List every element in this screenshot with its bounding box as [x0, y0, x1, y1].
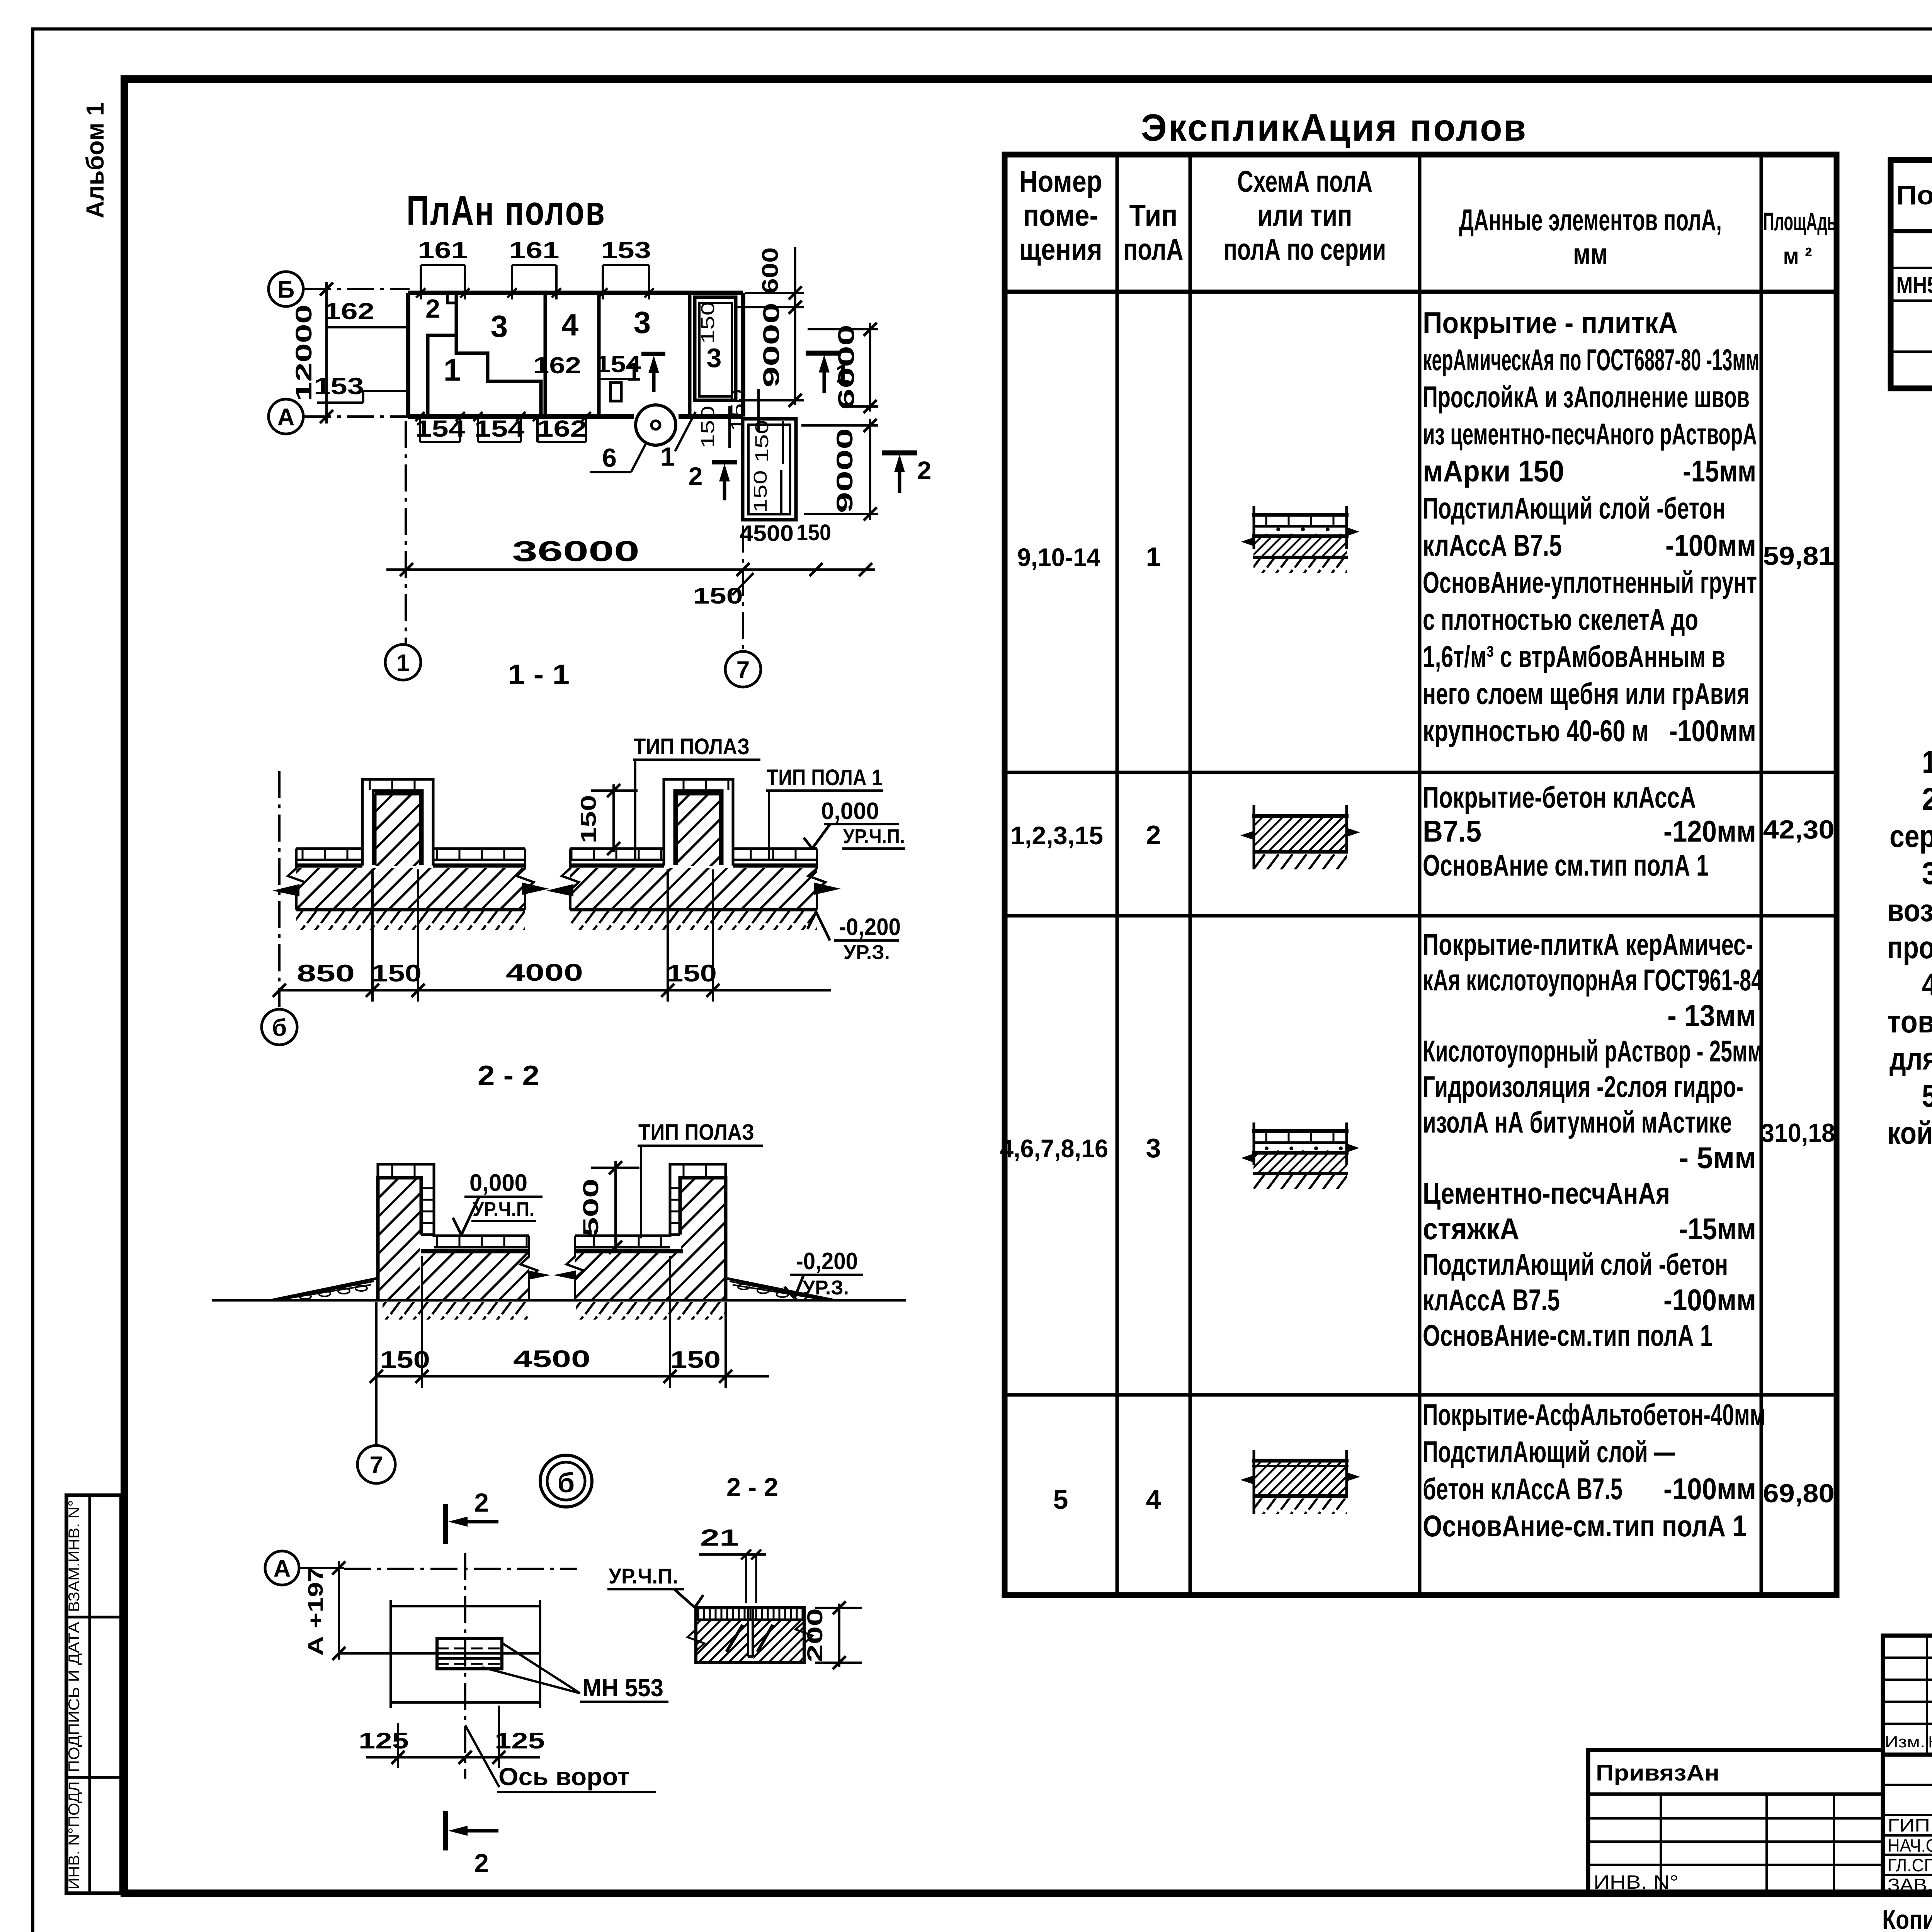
section mark 1 right [806, 353, 849, 393]
svg-text:12000: 12000 [291, 304, 316, 401]
svg-text:59,81: 59,81 [1763, 541, 1835, 571]
leader ТИП ПОЛА3 [633, 734, 760, 861]
svg-text:ПодстилАющий слой -бетон: ПодстилАющий слой -бетон [1423, 1247, 1728, 1281]
svg-text:-120мм: -120мм [1663, 814, 1756, 848]
title block left box Привязан [1588, 1750, 1883, 1893]
opening dimension 161 [416, 237, 469, 299]
explication schema type 2 [1240, 805, 1360, 869]
leader ТИП ПОЛА3 section 2-2 [638, 1120, 763, 1238]
svg-text:ИНВ. N°ПОДЛ: ИНВ. N°ПОДЛ [66, 1781, 83, 1889]
svg-text:ДАнные элементов полА,: ДАнные элементов полА, [1459, 203, 1722, 237]
section 1-1 axis line [278, 771, 281, 1007]
svg-text:4.По периметру нАружных стен у: 4.По периметру нАружных стен уложить сло… [1922, 967, 1932, 1002]
svg-text:А +197: А +197 [304, 1567, 327, 1656]
svg-text:150: 150 [750, 470, 771, 513]
svg-text:поме-: поме- [1023, 198, 1099, 232]
svg-text:-0,200: -0,200 [796, 1248, 858, 1275]
label 162 middle [533, 352, 581, 378]
level mark 0.000 section 2-2 [453, 1170, 543, 1235]
svg-text:-100мм: -100мм [1665, 528, 1756, 562]
svg-text:Цементно-песчАнАя: Цементно-песчАнАя [1423, 1176, 1670, 1210]
svg-text:б: б [558, 1468, 575, 1498]
svg-text:1: 1 [444, 353, 461, 387]
svg-text:Номер: Номер [1019, 164, 1102, 198]
axis line column 7 [742, 526, 744, 651]
axis circle Б [269, 272, 303, 306]
label 162 left [324, 298, 408, 327]
svg-text:Покрытие-АсфАльтобетон-40мм: Покрытие-АсфАльтобетон-40мм [1423, 1398, 1765, 1432]
svg-text:-15мм: -15мм [1683, 454, 1756, 488]
svg-text:2: 2 [474, 1488, 489, 1517]
level mark -0.200 section 1-1 [808, 912, 901, 964]
section 2-2 title [478, 1060, 539, 1091]
specification row texts [1896, 235, 1932, 301]
svg-text:150: 150 [670, 1347, 721, 1373]
label 150 with leader [693, 573, 753, 609]
svg-text:3: 3 [634, 305, 651, 340]
svg-text:4500: 4500 [740, 521, 794, 546]
svg-text:ПрослойкА и зАполнение швов: ПрослойкА и зАполнение швов [1423, 380, 1750, 414]
specification header texts [1896, 165, 1932, 215]
room label 3 right [634, 305, 651, 340]
svg-text:2 - 2: 2 - 2 [478, 1060, 539, 1091]
axis circle 1 [385, 645, 421, 680]
svg-text:ОсновАние-см.тип полА 1: ОсновАние-см.тип полА 1 [1423, 1509, 1747, 1543]
opening dimension 162 bottom [533, 412, 591, 442]
svg-text:200: 200 [803, 1608, 827, 1662]
section mark 2 in plan [689, 462, 737, 500]
svg-text:2: 2 [917, 456, 932, 485]
detail construction grid [339, 1553, 540, 1779]
svg-text:крупностью 40-60 м: крупностью 40-60 м [1423, 714, 1649, 748]
dimension 500 curb height [578, 1161, 639, 1254]
axis circle 7 section 2-2 [357, 1446, 395, 1483]
svg-text:УР.З.: УР.З. [844, 941, 890, 964]
opening dimension 161 [507, 237, 561, 299]
svg-text:ТИП ПОЛАЗ: ТИП ПОЛАЗ [638, 1120, 754, 1145]
dimension 12000 left [291, 282, 333, 423]
level mark 0.000 section 1-1 [804, 798, 905, 849]
svg-text:мАрки 150: мАрки 150 [1423, 454, 1564, 488]
section 2-2 ground line [212, 1300, 906, 1320]
svg-text:Изм.: Изм. [1885, 1733, 1925, 1751]
svg-text:ГЛ.СПЕЦ.: ГЛ.СПЕЦ. [1888, 1855, 1932, 1875]
svg-text:возведения перегородок,уклАдки: возведения перегородок,уклАдки труб элек… [1887, 893, 1932, 928]
detail section 2-2 small title [726, 1473, 778, 1502]
svg-text:клАссА В7.5: клАссА В7.5 [1423, 1283, 1560, 1317]
svg-text:ТИП ПОЛА 1: ТИП ПОЛА 1 [767, 765, 883, 790]
svg-text:2: 2 [425, 294, 440, 323]
svg-text:7: 7 [736, 656, 750, 683]
svg-text:150: 150 [752, 420, 772, 463]
svg-text:Кол.уч: Кол.уч [1929, 1733, 1932, 1751]
small section level УР.Ч.П. [607, 1564, 703, 1607]
svg-text:150: 150 [698, 406, 718, 448]
svg-text:МН 553: МН 553 [582, 1674, 663, 1702]
level mark -0.200 section 2-2 [784, 1248, 863, 1299]
opening dimension 153 [598, 237, 654, 299]
label Ось ворот [465, 1725, 656, 1792]
section 2-2 right curb unit [553, 1164, 834, 1300]
dimension 150 curb height [576, 784, 638, 855]
svg-text:42,30: 42,30 [1763, 815, 1835, 844]
svg-text:2: 2 [474, 1849, 489, 1878]
section 2-2 dimension line [370, 1256, 769, 1388]
trench label 150 top [698, 301, 718, 344]
svg-text:4: 4 [1146, 1485, 1161, 1515]
svg-text:2: 2 [689, 462, 703, 490]
svg-text:9000: 9000 [832, 428, 857, 513]
svg-text:стяжкА: стяжкА [1423, 1212, 1519, 1246]
svg-text:УР.Ч.П.: УР.Ч.П. [843, 825, 905, 848]
svg-text:153: 153 [314, 373, 364, 399]
dimension 125 125 [359, 1706, 545, 1768]
section 1-1 right slab with curb [546, 779, 841, 930]
svg-text:ГИП: ГИП [1888, 1815, 1930, 1835]
svg-text:Поз.: Поз. [1896, 180, 1932, 210]
svg-text:ОсновАние-уплотненный грунт: ОсновАние-уплотненный грунт [1423, 565, 1757, 599]
svg-text:150: 150 [371, 960, 422, 987]
svg-text:- 13мм: - 13мм [1667, 998, 1756, 1032]
svg-text:150: 150 [576, 795, 600, 844]
explication schema type 4 [1240, 1450, 1360, 1514]
opening dimension 154 bottom [473, 412, 526, 442]
section 1-1 title [508, 659, 570, 690]
title План полов [406, 187, 606, 234]
svg-text:153: 153 [601, 237, 651, 263]
svg-text:4,6,7,8,16: 4,6,7,8,16 [1000, 1134, 1108, 1163]
section 2-2 left curb unit [271, 1164, 551, 1300]
explication row 2 texts [1010, 780, 1835, 882]
specification table grid [1891, 160, 1932, 388]
opening dimension 154 bottom [415, 412, 466, 442]
partition wall rooms 3-4 [544, 293, 547, 417]
svg-text:СхемА полА: СхемА полА [1237, 164, 1372, 198]
svg-text:125: 125 [359, 1728, 409, 1753]
svg-text:из цементно-песчАного рАстворА: из цементно-песчАного рАстворА [1423, 417, 1757, 451]
stamp label ПОДПИСЬ И ДАТА [66, 1622, 83, 1772]
second trench label 150 top [752, 420, 783, 464]
svg-text:ЭкспликАция полов: ЭкспликАция полов [1141, 106, 1527, 149]
svg-text:69,80: 69,80 [1763, 1479, 1835, 1508]
detail section mark 2 bottom [446, 1811, 498, 1878]
svg-text:полА: полА [1124, 232, 1184, 266]
axis line А detail [299, 1568, 577, 1569]
svg-text:162: 162 [324, 298, 374, 324]
axis line column 1 [405, 421, 407, 645]
svg-text:Б: Б [277, 276, 295, 303]
svg-text:5.Уклон полов к трАпАм принят: 5.Уклон полов к трАпАм принят 0,010: вып… [1922, 1078, 1932, 1114]
room label 3 [491, 309, 508, 344]
svg-text:3: 3 [707, 343, 722, 373]
svg-text:серии 2.244-1 , вып. 3.: серии 2.244-1 , вып. 3. [1889, 819, 1932, 854]
right dimension 6000 [808, 323, 878, 413]
svg-text:-100мм: -100мм [1663, 1283, 1756, 1317]
dimension line 36000 [386, 520, 875, 576]
label 154 middle [595, 351, 641, 379]
svg-text:500: 500 [578, 1179, 603, 1236]
svg-text:-0,200: -0,200 [839, 914, 901, 940]
leader label 1 [660, 412, 696, 471]
svg-text:изолА нА битумной мАстике: изолА нА битумной мАстике [1423, 1105, 1732, 1139]
dimension А+197 [304, 1561, 345, 1660]
node 6 circle marker [636, 405, 676, 445]
svg-text:Гидроизоляция -2слоя гидро-: Гидроизоляция -2слоя гидро- [1423, 1070, 1743, 1104]
svg-text:б: б [272, 1014, 287, 1041]
axis line 7 section 2-2 [375, 1388, 378, 1444]
explication row 1 texts [1017, 306, 1835, 748]
svg-text:1.Типы полов приняты по СНиП 2: 1.Типы полов приняты по СНиП 2.03.13 -88… [1922, 745, 1932, 780]
axis line А [304, 415, 421, 418]
detail section mark 2 top [446, 1488, 498, 1544]
partition wall room2 [447, 293, 456, 335]
small section slab [687, 1608, 813, 1663]
axis circle А [269, 399, 303, 434]
right dimension 9000 lower [801, 419, 878, 520]
axis circle б section 1-1 [262, 1009, 297, 1045]
door opening [611, 383, 621, 401]
svg-text:ОсновАние см.тип полА 1: ОсновАние см.тип полА 1 [1423, 848, 1709, 882]
explication schema type 3 [1241, 1122, 1359, 1189]
svg-text:36000: 36000 [512, 535, 639, 567]
svg-text:162: 162 [537, 416, 587, 442]
svg-text:21: 21 [700, 1525, 739, 1551]
notes text block [1887, 745, 1932, 1151]
svg-text:УР.Ч.П.: УР.Ч.П. [609, 1564, 678, 1588]
svg-text:ПодстилАющий слой —: ПодстилАющий слой — [1423, 1435, 1675, 1469]
svg-text:НАЧ.ОТД.: НАЧ.ОТД. [1888, 1835, 1932, 1855]
svg-text:1: 1 [627, 357, 641, 386]
svg-text:Покрытие-бетон клАссА: Покрытие-бетон клАссА [1423, 780, 1696, 814]
svg-text:м ²: м ² [1783, 243, 1812, 270]
explication table title [1141, 106, 1527, 149]
right dimension 600 9000 [736, 247, 804, 407]
svg-text:керАмическАя по ГОСТ6887-80 -1: керАмическАя по ГОСТ6887-80 -13мм [1423, 343, 1759, 377]
svg-text:2 - 2: 2 - 2 [726, 1473, 778, 1502]
title block main outline [1883, 1636, 1932, 1893]
svg-text:клАссА В7.5: клАссА В7.5 [1423, 528, 1562, 562]
svg-text:ВЗАМ.ИНВ. N°: ВЗАМ.ИНВ. N° [66, 1500, 83, 1612]
svg-text:2: 2 [1146, 820, 1161, 850]
svg-text:1: 1 [660, 442, 675, 471]
svg-text:с плотностью скелетА до: с плотностью скелетА до [1423, 602, 1698, 636]
building outline wall [408, 293, 743, 417]
svg-text:162: 162 [533, 352, 581, 378]
partition wall rooms 4-3 [597, 293, 601, 417]
room label 2 [425, 294, 440, 323]
svg-text:125: 125 [495, 1728, 545, 1753]
embedded plate МН553 [437, 1638, 502, 1669]
svg-text:6: 6 [602, 443, 617, 473]
svg-text:150: 150 [693, 583, 743, 609]
svg-text:310,18: 310,18 [1761, 1118, 1835, 1148]
room 1 stepped partition [428, 335, 541, 417]
svg-text:161: 161 [509, 237, 560, 263]
svg-text:Альбом 1: Альбом 1 [81, 102, 109, 218]
partition wall right room 3 [688, 293, 692, 417]
svg-text:850: 850 [297, 960, 355, 987]
svg-text:1: 1 [1146, 542, 1161, 572]
label 153 left [314, 373, 408, 403]
svg-text:-15мм: -15мм [1679, 1212, 1756, 1246]
label 150 near trench [728, 389, 759, 432]
svg-text:бетон клАссА В7.5: бетон клАссА В7.5 [1423, 1472, 1622, 1506]
explication row 4 texts [1053, 1398, 1835, 1543]
svg-text:3: 3 [1146, 1133, 1161, 1163]
svg-text:600: 600 [758, 247, 783, 294]
trench label 3 [707, 343, 722, 373]
svg-text:ПлАн полов: ПлАн полов [406, 187, 606, 234]
svg-text:- 5мм: - 5мм [1679, 1141, 1756, 1175]
section 1-1 dimension line [273, 869, 831, 1002]
svg-text:Кислотоупорный рАствор - 25мм: Кислотоупорный рАствор - 25мм [1423, 1034, 1763, 1068]
explication schema type 1 [1241, 506, 1359, 573]
svg-text:щения: щения [1019, 232, 1102, 266]
svg-text:1,6т/м³ с втрАмбовАнным в: 1,6т/м³ с втрАмбовАнным в [1423, 639, 1725, 673]
trench label 150 bottom [698, 406, 730, 448]
title block revision table [1883, 1636, 1932, 1755]
svg-text:Покрытие - плиткА: Покрытие - плиткА [1423, 306, 1678, 340]
axis line Б [304, 288, 410, 290]
stamp label ВЗАМ.ИНВ.№ [66, 1500, 83, 1612]
title block signature rows [1883, 1755, 1932, 1895]
svg-text:для tн = - 20°С - 150мм, tн =: для tн = - 20°С - 150мм, tн = -30°С — 20… [1889, 1041, 1932, 1077]
svg-text:-100мм: -100мм [1663, 1472, 1756, 1506]
svg-text:150: 150 [667, 960, 717, 987]
svg-text:161: 161 [418, 237, 468, 263]
svg-text:мм: мм [1573, 237, 1608, 271]
leader ТИП ПОЛА 1 [766, 765, 883, 861]
svg-text:кАя кислотоупорнАя ГОСТ961-84: кАя кислотоупорнАя ГОСТ961-84 [1423, 963, 1763, 997]
svg-text:ЗАВ. ГР.: ЗАВ. ГР. [1888, 1875, 1932, 1895]
second trench label 150 bottom [750, 470, 781, 513]
svg-text:150: 150 [380, 1347, 430, 1373]
svg-text:2.Узлы,обознАченные нА плАнАх: 2.Узлы,обознАченные нА плАнАх полов, при… [1922, 782, 1932, 817]
svg-text:Покрытие-плиткА керАмичес-: Покрытие-плиткА керАмичес- [1423, 927, 1753, 961]
svg-text:проводок и других инженерных к: проводок и других инженерных коммуникАци… [1887, 930, 1932, 965]
svg-text:ТИП ПОЛАЗ: ТИП ПОЛАЗ [634, 734, 750, 759]
svg-text:Ось ворот: Ось ворот [498, 1763, 630, 1791]
svg-text:Тип: Тип [1129, 198, 1178, 232]
axis circle А detail [265, 1551, 299, 1585]
svg-text:тового грАвия γ = 600кг/м³ шир: тового грАвия γ = 600кг/м³ шириной 800мм… [1887, 1004, 1932, 1039]
svg-text:или тип: или тип [1258, 198, 1352, 232]
trench pit in plan [695, 297, 736, 400]
svg-text:УР.Ч.П.: УР.Ч.П. [473, 1198, 534, 1221]
svg-text:ПривязАн: ПривязАн [1596, 1760, 1719, 1786]
svg-text:ОсновАние-см.тип полА 1: ОсновАние-см.тип полА 1 [1423, 1318, 1713, 1352]
stamp label ИНВ.№ПОДЛ [66, 1781, 83, 1889]
leader МН 553 [482, 1643, 668, 1702]
svg-text:0,000: 0,000 [821, 798, 879, 825]
second trench pit [743, 419, 796, 520]
section mark 1 in plan [627, 354, 665, 392]
svg-text:А: А [277, 404, 295, 430]
svg-text:ПлощАдь: ПлощАдь [1763, 207, 1837, 236]
svg-text:3.К устройству чистых полов пр: 3.К устройству чистых полов приступить п… [1922, 856, 1932, 891]
section 1-1 left slab with curb [272, 779, 549, 930]
svg-text:150: 150 [698, 301, 718, 344]
room label 4 [561, 308, 579, 342]
svg-text:МН553: МН553 [1896, 272, 1932, 298]
svg-text:150: 150 [796, 520, 831, 545]
svg-text:6000: 6000 [834, 325, 859, 410]
svg-text:0,000: 0,000 [469, 1170, 527, 1196]
footer Копировал [1882, 1904, 1932, 1932]
room label 1 [444, 353, 461, 387]
small section dimension 21 [699, 1525, 766, 1603]
svg-text:7: 7 [370, 1452, 383, 1478]
svg-text:него слоем щебня или грАвия: него слоем щебня или грАвия [1423, 677, 1750, 711]
detail circle Б [540, 1455, 592, 1507]
svg-text:КопировАл ЗАвьяловА: КопировАл ЗАвьяловА [1882, 1905, 1932, 1932]
svg-text:4000: 4000 [506, 959, 583, 986]
svg-text:кой грунтА основАния.: кой грунтА основАния. [1887, 1116, 1932, 1151]
svg-text:4: 4 [561, 308, 579, 342]
section mark 2 right [882, 453, 931, 493]
svg-text:9,10-14: 9,10-14 [1017, 543, 1100, 571]
svg-text:3: 3 [491, 309, 508, 344]
svg-text:4500: 4500 [513, 1346, 590, 1372]
explication header texts [1019, 164, 1837, 271]
explication table grid [1005, 155, 1837, 1595]
svg-text:5: 5 [1053, 1485, 1068, 1515]
svg-text:150: 150 [728, 389, 748, 432]
svg-text:1: 1 [396, 650, 410, 676]
axis circle 7 [725, 651, 761, 687]
svg-text:1 - 1: 1 - 1 [508, 659, 570, 690]
left stamp table [66, 1495, 121, 1893]
svg-text:полА по серии: полА по серии [1224, 232, 1386, 266]
svg-text:9000: 9000 [759, 303, 784, 388]
svg-text:ПОДПИСЬ И ДАТА: ПОДПИСЬ И ДАТА [66, 1622, 83, 1772]
small section dimension 200 [803, 1601, 862, 1669]
svg-text:ИНВ. N°: ИНВ. N° [1594, 1871, 1679, 1893]
svg-text:ПодстилАющий слой -бетон: ПодстилАющий слой -бетон [1423, 491, 1725, 525]
svg-text:В7.5: В7.5 [1423, 814, 1481, 848]
leader label 6 [590, 443, 646, 473]
svg-text:УР.З.: УР.З. [803, 1277, 849, 1299]
svg-text:А: А [274, 1555, 291, 1582]
explication row 3 texts [1000, 927, 1835, 1352]
svg-text:-100мм: -100мм [1669, 714, 1756, 748]
vertical label Альбом 1 [81, 102, 109, 218]
svg-text:1,2,3,15: 1,2,3,15 [1010, 821, 1103, 850]
